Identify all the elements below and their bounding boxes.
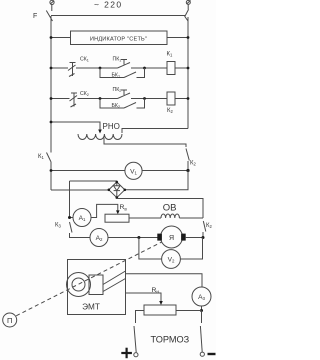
svg-text:Я: Я: [169, 235, 174, 242]
terminal brake right: [200, 352, 204, 356]
contact BK1: [124, 72, 136, 78]
node indicator right: [187, 36, 190, 39]
Rv wiper arrow: [116, 210, 120, 214]
wire RNO right output to bus: [122, 129, 188, 134]
relay coil K2: [167, 92, 175, 105]
brush left: [157, 234, 162, 241]
node armature right: [202, 236, 205, 239]
wire row1 left: [51, 67, 68, 69]
contact PK2: [118, 90, 131, 99]
wire row2 left: [51, 98, 70, 100]
wire A2 to armature row: [108, 237, 158, 239]
rheostat Rn box: [144, 305, 176, 315]
EMT rotor inner: [72, 278, 85, 291]
voltmeter V2: [162, 250, 181, 269]
node row2 branch right: [143, 97, 146, 100]
svg-text:П: П: [7, 316, 12, 325]
wire indicator right: [167, 37, 188, 39]
EMT magnet block: [89, 275, 103, 295]
node row1 branch right: [143, 67, 146, 70]
wire row1 right of PK1: [131, 67, 167, 69]
Rn wiper arrow: [159, 301, 163, 305]
wire bridge bottom output: [117, 198, 203, 218]
wire A1 to Rv wiper: [91, 204, 118, 217]
mechanical link dashed: [16, 242, 162, 316]
contact K2' blade: [203, 221, 206, 232]
terminal brake left: [134, 353, 138, 357]
wire row2 right of PK2: [131, 98, 167, 100]
wire V2 branch right: [180, 238, 202, 260]
wire right bus: [187, 17, 189, 129]
wire EMT upper output: [126, 274, 203, 287]
node bridge right: [124, 189, 127, 192]
wire BK2 branch: [100, 99, 124, 109]
terminal right: [186, 0, 190, 4]
contact SK1: [68, 63, 76, 77]
svg-text:ИНДИКАТОР "СЕТЬ": ИНДИКАТОР "СЕТЬ": [90, 37, 147, 43]
svg-text:К2: К2: [206, 223, 213, 229]
node RNO feed: [50, 121, 53, 124]
switch F blade right: [185, 10, 189, 22]
node load right: [200, 309, 203, 312]
node V2 branch left: [137, 236, 140, 239]
svg-text:К1: К1: [167, 52, 174, 58]
svg-text:ТОРМОЗ: ТОРМОЗ: [151, 334, 190, 344]
wire RNO feed: [51, 122, 100, 130]
autotransformer RNO winding: [78, 134, 122, 140]
svg-text:К3: К3: [55, 223, 62, 229]
switch F blade left: [46, 11, 52, 22]
wire bridge right feed: [125, 171, 188, 190]
node row2 right bus: [187, 97, 190, 100]
handle P circle: [3, 313, 17, 327]
ammeter A3: [192, 287, 211, 306]
terminal left: [50, 0, 54, 4]
node A1 feed: [68, 216, 71, 219]
wire A3 bottom: [201, 306, 203, 311]
wire indicator left: [51, 37, 71, 39]
wire A-branch vertical: [69, 181, 71, 218]
wire V1 row left: [51, 170, 125, 172]
EMT rotor outer: [67, 273, 91, 297]
ammeter A2: [90, 229, 108, 247]
EMT armature lever 1: [103, 271, 126, 285]
label minus: [208, 353, 216, 355]
switch blade brake right: [200, 326, 202, 352]
wire Rv to OV: [129, 217, 161, 219]
wire K3 lower to A2 row: [70, 233, 91, 238]
wire armature right: [186, 237, 203, 239]
label plus: [121, 348, 132, 359]
ammeter A1: [73, 209, 91, 227]
wire RNO lower tap: [104, 138, 186, 148]
svg-text:ЭМТ: ЭМТ: [82, 303, 100, 312]
switch blade brake left: [134, 326, 136, 352]
svg-text:РНО: РНО: [103, 122, 120, 131]
node V1 left: [50, 169, 53, 172]
node indicator left: [50, 36, 53, 39]
svg-text:~ 220: ~ 220: [94, 0, 123, 10]
wire BK2 branch right: [137, 99, 145, 109]
wire bridge left feed: [51, 189, 109, 191]
wire coil K1 right: [175, 67, 188, 69]
armature Ya: [161, 226, 183, 248]
contact SK2: [70, 93, 78, 107]
node bridge bottom: [116, 196, 119, 199]
wire A1 row: [70, 217, 73, 219]
contact BK2: [124, 103, 136, 109]
wire V2 branch left: [139, 238, 162, 260]
wire left bus below K1: [50, 162, 52, 191]
wire Rn left: [136, 311, 145, 324]
rheostat Rv box: [105, 214, 129, 222]
wire left bus: [50, 16, 52, 153]
wire EMT lower output: [126, 293, 162, 303]
wire row2 mid: [78, 98, 118, 100]
svg-text:К2: К2: [190, 161, 197, 167]
svg-text:F: F: [33, 13, 37, 20]
contact K3 blade: [70, 222, 73, 233]
wire K2 contact lower: [187, 161, 189, 171]
contact K1 blade in left bus: [47, 153, 51, 162]
wire BK1 branch right: [137, 68, 145, 78]
wire coil K2 right: [175, 98, 188, 100]
node V1 right: [186, 169, 189, 172]
relay coil K1: [167, 62, 175, 75]
diode bridge D: [109, 182, 125, 198]
wire brake right: [201, 311, 203, 324]
node row2 left bus: [50, 97, 53, 100]
node row2 branch left: [99, 97, 102, 100]
RNO wiper arrow: [98, 130, 102, 134]
node row1 branch left: [99, 67, 102, 70]
wire top supply: [51, 15, 185, 17]
node row1 left bus: [50, 67, 53, 70]
wire bridge top feed: [70, 181, 117, 182]
wire V1 row right: [142, 170, 188, 172]
svg-text:К2: К2: [167, 108, 174, 114]
EMT box: [68, 260, 126, 315]
svg-text:ОВ: ОВ: [163, 203, 177, 214]
EMT armature lever 2: [103, 279, 126, 292]
node row1 right bus: [187, 67, 190, 70]
wire OV right: [179, 217, 203, 219]
svg-text:К1: К1: [38, 154, 45, 160]
wire BK1 branch: [100, 68, 124, 78]
field winding OV: [161, 214, 179, 218]
indicator box ИНДИКАТОР СЕТЬ: [71, 31, 168, 45]
contact K2 tap blade: [186, 149, 189, 161]
wire row1 mid: [76, 67, 118, 69]
voltmeter V1: [125, 162, 142, 179]
wire K2' lower: [202, 232, 204, 238]
node bridge top: [116, 181, 119, 184]
contact PK1: [118, 60, 131, 69]
node bridge left: [108, 189, 111, 192]
wire Rn right: [176, 310, 202, 312]
brush right: [181, 234, 186, 241]
